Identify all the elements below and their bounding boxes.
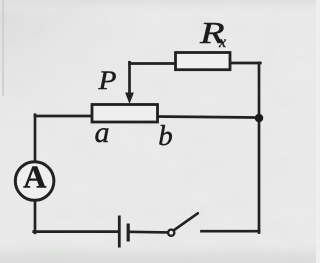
svg-text:a: a bbox=[95, 116, 110, 149]
svg-text:x: x bbox=[218, 34, 226, 51]
wire right vertical bbox=[258, 63, 261, 233]
wire wiper branch vertical bbox=[128, 62, 131, 94]
svg-text:b: b bbox=[158, 120, 173, 152]
wire left vertical lower bbox=[34, 201, 37, 233]
ammeter A circle bbox=[15, 162, 54, 201]
svg-text:A: A bbox=[23, 159, 46, 195]
wire Rx right to corner bbox=[230, 62, 260, 65]
scan edge artifact left bbox=[2, 0, 4, 96]
wire wiper branch horizontal bbox=[130, 62, 177, 65]
svg-text:P: P bbox=[97, 67, 116, 96]
wire bottom left segment bbox=[34, 230, 118, 233]
resistor Rx body bbox=[176, 53, 231, 70]
wire a-b right segment to node bbox=[157, 117, 259, 118]
wire a-b left segment bbox=[35, 115, 93, 118]
wire left vertical upper bbox=[34, 115, 37, 162]
battery short plate bbox=[127, 224, 130, 242]
wiper arrowhead bbox=[125, 93, 134, 105]
potentiometer P body bbox=[92, 105, 158, 123]
switch pivot circle bbox=[168, 230, 174, 236]
battery long plate bbox=[118, 216, 121, 248]
wire switch to right corner bbox=[202, 230, 260, 233]
wire battery to switch bbox=[130, 230, 168, 233]
switch lever bbox=[174, 213, 198, 230]
node junction dot bbox=[255, 114, 264, 123]
